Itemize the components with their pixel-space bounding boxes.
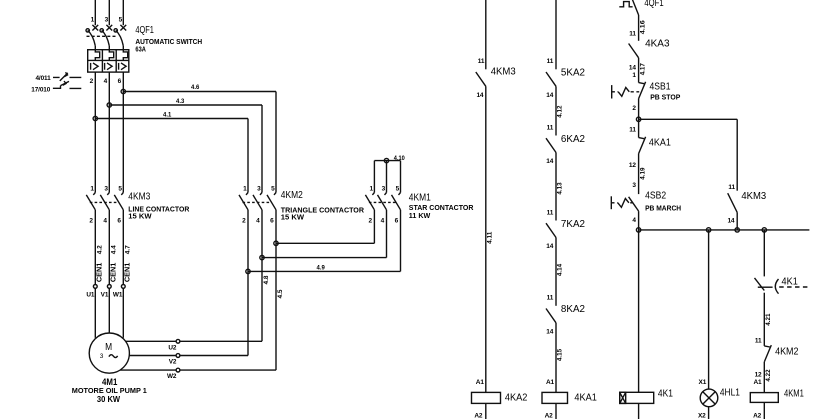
wire 4KM2 pole2 down <box>261 210 263 341</box>
wire 4.17 <box>638 58 640 83</box>
svg-text:4KA3: 4KA3 <box>645 38 670 49</box>
svg-text:4.10: 4.10 <box>394 155 405 162</box>
svg-text:5: 5 <box>271 186 275 193</box>
svg-text:CEN1: CEN1 <box>94 263 103 283</box>
svg-text:1: 1 <box>90 186 94 193</box>
svg-text:4.22: 4.22 <box>765 369 772 382</box>
wire star mid <box>262 257 387 259</box>
svg-text:PB STOP: PB STOP <box>650 92 680 101</box>
node junction 4.3 <box>107 103 111 107</box>
svg-text:14: 14 <box>546 92 553 99</box>
svg-text:4.12: 4.12 <box>557 105 564 118</box>
wire 4.1 <box>95 118 248 120</box>
thermal trip element <box>109 50 113 61</box>
wire motor W2 <box>120 369 176 371</box>
svg-text:4.15: 4.15 <box>557 348 564 361</box>
svg-text:4/011: 4/011 <box>35 75 51 82</box>
wire to motor U1 <box>94 288 96 338</box>
svg-text:2: 2 <box>89 217 93 224</box>
svg-text:4SB2: 4SB2 <box>645 190 666 201</box>
svg-text:CEN1: CEN1 <box>108 263 117 283</box>
svg-text:4.13: 4.13 <box>557 182 564 195</box>
wire L3 to 4KM3 <box>122 72 124 192</box>
svg-text:11: 11 <box>547 295 554 302</box>
wire node 4 <box>638 211 640 392</box>
node motor terminal <box>93 285 97 289</box>
motor 4M1 <box>89 333 129 373</box>
svg-text:W2: W2 <box>167 373 177 380</box>
svg-text:4.8: 4.8 <box>263 275 270 284</box>
svg-text:A1: A1 <box>476 379 485 386</box>
svg-text:4.16: 4.16 <box>639 20 646 35</box>
svg-text:14: 14 <box>546 329 553 336</box>
wire 4.12 <box>555 86 557 135</box>
svg-text:A2: A2 <box>753 412 762 419</box>
svg-text:4.14: 4.14 <box>557 263 564 276</box>
svg-text:1: 1 <box>370 186 374 193</box>
wire 4.13 <box>555 153 557 221</box>
wire 4.2 <box>94 210 96 285</box>
svg-text:4.17: 4.17 <box>639 63 646 76</box>
node junction 4.1 <box>93 116 97 120</box>
svg-text:5: 5 <box>396 186 400 193</box>
svg-text:4KM2: 4KM2 <box>775 346 799 357</box>
svg-text:6: 6 <box>118 78 122 85</box>
svg-text:6KA2: 6KA2 <box>561 134 586 145</box>
wire 4KM1 coil bottom <box>763 402 765 419</box>
svg-text:15 KW: 15 KW <box>128 211 152 220</box>
svg-text:14: 14 <box>629 64 636 71</box>
magnetic trip I> <box>118 63 120 70</box>
svg-text:A1: A1 <box>546 379 555 386</box>
wire motor V2 <box>129 355 176 357</box>
svg-text:4K1: 4K1 <box>782 276 799 287</box>
svg-text:4QF1: 4QF1 <box>644 0 664 9</box>
svg-text:4.11: 4.11 <box>487 231 494 244</box>
thermal trip element <box>95 50 99 61</box>
svg-text:V2: V2 <box>169 359 177 366</box>
svg-text:5: 5 <box>118 186 122 193</box>
svg-text:6: 6 <box>395 217 399 224</box>
svg-text:4: 4 <box>632 217 636 224</box>
wire L1 incoming <box>94 0 96 25</box>
wire rung1 top <box>485 0 487 69</box>
svg-text:4.5: 4.5 <box>277 289 284 298</box>
svg-text:4.1: 4.1 <box>163 111 172 118</box>
svg-text:4KA1: 4KA1 <box>574 393 597 404</box>
wire node 2 <box>638 99 640 138</box>
svg-text:4.19: 4.19 <box>639 167 646 180</box>
svg-text:4.2: 4.2 <box>96 245 103 254</box>
svg-text:6: 6 <box>117 217 121 224</box>
svg-text:U1: U1 <box>86 291 95 298</box>
node junction 2 <box>636 117 640 121</box>
wire 4.6 <box>123 91 276 93</box>
svg-text:11: 11 <box>629 127 636 134</box>
svg-text:4K1: 4K1 <box>658 388 673 399</box>
wire to motor V1 <box>108 288 110 333</box>
svg-text:11: 11 <box>478 58 485 65</box>
svg-text:11: 11 <box>547 124 554 131</box>
svg-text:14: 14 <box>476 92 483 99</box>
svg-text:4SB1: 4SB1 <box>650 81 671 92</box>
svg-text:V1: V1 <box>101 291 109 298</box>
svg-text:6: 6 <box>270 217 274 224</box>
svg-text:3: 3 <box>104 186 108 193</box>
svg-text:A2: A2 <box>474 412 483 419</box>
svg-text:1: 1 <box>632 72 636 79</box>
breaker pole contact <box>106 25 112 31</box>
magnetic trip I> <box>90 63 92 70</box>
svg-text:14: 14 <box>546 158 553 165</box>
coil 4KM1 <box>750 393 778 403</box>
svg-text:30 KW: 30 KW <box>97 394 120 404</box>
bus node 4 <box>639 229 810 231</box>
svg-text:11: 11 <box>547 58 554 65</box>
wire star top <box>276 242 374 244</box>
4QF1 trip unit box <box>88 50 129 72</box>
wire 4.11 <box>485 86 487 392</box>
node junction 4.6 <box>121 89 125 93</box>
wire motor U2 <box>126 340 176 342</box>
wire 4.4 <box>108 210 110 285</box>
svg-text:4.6: 4.6 <box>191 84 200 91</box>
svg-text:2: 2 <box>369 217 373 224</box>
wire rung2 bottom <box>555 403 557 419</box>
svg-text:7KA2: 7KA2 <box>561 219 586 230</box>
wire L3 incoming <box>122 0 124 25</box>
breaker pole contact <box>120 25 126 31</box>
svg-text:11 KW: 11 KW <box>409 211 431 220</box>
svg-text:3: 3 <box>105 16 109 23</box>
svg-text:11: 11 <box>755 338 762 345</box>
contact 4KM2 11-12 (NC) <box>764 346 770 347</box>
wire 4.22 <box>763 362 765 393</box>
contact 4KA3 11-14 <box>629 44 639 58</box>
wire 4.7 <box>122 210 124 285</box>
wire L2 to 4KM3 <box>108 72 110 192</box>
contact 4QF1 aux with cam <box>619 2 632 7</box>
wire rung2 top <box>555 0 557 69</box>
wire lamp branch <box>708 230 710 389</box>
svg-text:3: 3 <box>382 186 386 193</box>
pushbutton 4SB1 PB STOP (NC) <box>639 83 645 84</box>
svg-text:W1: W1 <box>113 291 123 298</box>
bus node2 to holding contact <box>639 118 738 120</box>
wire 4.19 <box>638 154 640 195</box>
svg-text:14: 14 <box>727 218 734 225</box>
wire 4.21 <box>763 293 765 346</box>
svg-text:4QF1: 4QF1 <box>135 25 154 36</box>
coil 4K1 (timer) <box>620 392 654 403</box>
svg-text:U2: U2 <box>168 345 177 352</box>
svg-text:4: 4 <box>381 217 385 224</box>
svg-text:A1: A1 <box>753 379 762 386</box>
svg-text:4KA2: 4KA2 <box>505 393 528 404</box>
svg-text:X2: X2 <box>698 412 706 419</box>
svg-text:4.4: 4.4 <box>110 245 117 254</box>
svg-text:A2: A2 <box>545 412 554 419</box>
svg-text:PB MARCH: PB MARCH <box>645 204 681 213</box>
svg-text:8KA2: 8KA2 <box>561 304 586 315</box>
svg-text:4.7: 4.7 <box>124 245 131 254</box>
svg-text:11: 11 <box>629 30 636 37</box>
svg-text:4: 4 <box>256 217 260 224</box>
svg-text:4.9: 4.9 <box>317 264 326 271</box>
wire L1 to 4KM3 <box>94 72 96 192</box>
wire 4.3 <box>109 104 262 106</box>
node motor terminal <box>121 285 125 289</box>
linkage dashed 4QF1 poles <box>87 35 118 37</box>
svg-text:4.3: 4.3 <box>176 98 185 105</box>
node motor terminal <box>107 285 111 289</box>
svg-text:12: 12 <box>755 372 762 379</box>
contact 4K1 timed NO <box>755 278 765 291</box>
svg-text:4KM3: 4KM3 <box>741 191 766 202</box>
svg-text:CEN1: CEN1 <box>122 263 131 283</box>
svg-text:4HL1: 4HL1 <box>720 387 740 398</box>
wire 4.14 <box>555 238 557 306</box>
wire L2 incoming <box>108 0 110 25</box>
node junction 4 <box>636 228 640 232</box>
wire 4.16 <box>638 15 640 41</box>
svg-text:3: 3 <box>100 353 104 360</box>
svg-text:M: M <box>105 342 112 353</box>
svg-text:5: 5 <box>119 16 123 23</box>
wire 4.10 star bridge <box>374 160 400 162</box>
wire 4KM2 pole3 down <box>275 210 277 370</box>
wire rung3 bottom <box>638 403 640 419</box>
svg-text:X1: X1 <box>699 379 707 386</box>
svg-text:17/010: 17/010 <box>31 86 50 93</box>
svg-text:63A: 63A <box>135 45 146 54</box>
svg-text:11: 11 <box>728 184 735 191</box>
svg-text:2: 2 <box>90 78 94 85</box>
svg-text:2: 2 <box>632 105 636 112</box>
wire 4KM2 pole1 down <box>247 210 249 356</box>
svg-text:4KA1: 4KA1 <box>649 138 671 149</box>
svg-text:11: 11 <box>547 209 554 216</box>
svg-text:1: 1 <box>91 16 95 23</box>
svg-text:3: 3 <box>632 182 636 189</box>
svg-text:4: 4 <box>103 217 107 224</box>
thermal trip element <box>123 50 127 61</box>
svg-text:3: 3 <box>257 186 261 193</box>
svg-text:5KA2: 5KA2 <box>561 68 586 79</box>
svg-text:14: 14 <box>546 243 553 250</box>
svg-text:4KM2: 4KM2 <box>281 190 303 201</box>
svg-text:4KM3: 4KM3 <box>128 191 150 202</box>
svg-text:4: 4 <box>104 78 108 85</box>
svg-text:4KM1: 4KM1 <box>409 193 431 204</box>
wire 4.9 <box>248 270 401 272</box>
wire rung1 bottom <box>485 403 487 419</box>
svg-text:4KM1: 4KM1 <box>784 388 804 399</box>
svg-text:12: 12 <box>629 162 636 169</box>
svg-text:15 KW: 15 KW <box>281 213 305 222</box>
svg-text:2: 2 <box>242 217 246 224</box>
wire 4.15 <box>555 323 557 393</box>
magnetic trip I> <box>104 63 106 70</box>
pushbutton 4SB2 PB MARCH (NO) <box>629 197 639 211</box>
svg-text:4.21: 4.21 <box>765 313 772 326</box>
breaker pole contact <box>92 25 98 31</box>
wire to motor W1 <box>122 288 124 338</box>
svg-text:1: 1 <box>243 186 247 193</box>
wire to 4K1 contact <box>763 230 765 277</box>
svg-text:4KM3: 4KM3 <box>491 67 516 78</box>
lamp 4HL1 <box>700 389 718 407</box>
